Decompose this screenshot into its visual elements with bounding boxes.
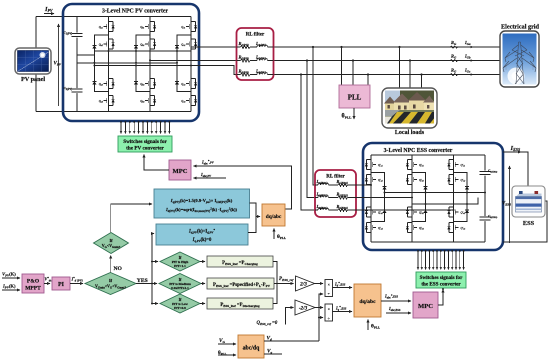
IGBT Qa4: [104, 96, 115, 106]
grid line impedance RG phase b: [450, 59, 458, 61]
ESS top rail: [371, 154, 485, 156]
svg-text:PV panel: PV panel: [21, 76, 45, 83]
ESS clamp diodes leg C: [465, 187, 469, 190]
wire PV dc link vertical: [35, 17, 37, 112]
svg-text:Vd: Vd: [267, 336, 272, 342]
svg-text:IGb: IGb: [464, 54, 471, 60]
ESS dc-link column: [484, 155, 486, 242]
equation box 1: [154, 189, 250, 218]
svg-text:RL filter: RL filter: [246, 33, 265, 38]
Switches signals ESS box: [416, 272, 466, 288]
IGBT Qb2: [145, 39, 156, 49]
capacitor C1(PV): [71, 33, 83, 38]
ESS neutral upper: [385, 192, 486, 194]
svg-text:PLL: PLL: [348, 94, 362, 102]
Switches signals PV box: [118, 136, 172, 152]
svg-text:Q′c1: Q′c1: [461, 164, 466, 168]
svg-text:C1(PV): C1(PV): [64, 31, 73, 36]
svg-text:Qc4: Qc4: [181, 100, 185, 104]
svg-text:I*d (PV): I*d (PV): [71, 276, 83, 283]
wire IabcPV measured to MPC: [194, 177, 227, 179]
dq/abc PV box: [262, 204, 285, 226]
input VPV(K): [2, 277, 20, 279]
result box charging: [207, 256, 273, 267]
svg-text:Qb1: Qb1: [140, 26, 144, 30]
inductor L2(PV): [257, 59, 267, 61]
Local loads image: [382, 88, 437, 128]
svg-text:Q′b3: Q′b3: [419, 211, 424, 215]
svg-text:PI: PI: [58, 282, 65, 288]
P&O MPPT box: [22, 274, 44, 293]
svg-text:×: ×: [328, 306, 330, 311]
IGBT Qpc1: [447, 160, 458, 170]
wire ESS tap phase A: [313, 47, 316, 185]
wire loads tap C: [421, 75, 423, 89]
NO wire: [110, 256, 112, 273]
svg-text:IPV(K): IPV(K): [2, 284, 16, 290]
svg-text:Q′c2: Q′c2: [461, 179, 466, 183]
svg-text:θPLL: θPLL: [371, 324, 380, 330]
svg-text:MPC: MPC: [418, 303, 433, 310]
IGBT Qpb2: [406, 175, 417, 185]
wire PLL tap B: [352, 61, 354, 86]
wire PESSref to 2/3: [277, 283, 294, 285]
theta PLL output: [353, 108, 355, 119]
svg-text:FfT>1.1: FfT>1.1: [174, 264, 186, 268]
upper diamond If VG below VGmin: [94, 233, 129, 254]
PI box: [52, 277, 70, 290]
svg-text:IGc: IGc: [464, 68, 471, 74]
svg-text:C1(ESS): C1(ESS): [488, 169, 497, 174]
wire PLL tap C: [367, 75, 369, 86]
ESS phase line B: [356, 197, 412, 199]
result box discharging: [207, 298, 273, 309]
battery return wire: [503, 201, 547, 242]
capacitor C2(PV): [71, 88, 83, 93]
svg-text:Local loads: Local loads: [395, 130, 425, 136]
IGBT Qpa4: [365, 223, 376, 233]
ESS gate bundle dots: [417, 250, 464, 252]
svg-text:2/3: 2/3: [299, 282, 307, 288]
IGBT Qpa2: [365, 175, 376, 185]
resistor R2(PV): [237, 60, 258, 62]
wire Iabc*PV from dq/abc to MPC: [194, 166, 292, 209]
svg-text:Switches signals for: Switches signals for: [420, 275, 463, 281]
svg-text:ESS: ESS: [523, 220, 535, 227]
svg-text:Qb2: Qb2: [140, 43, 144, 47]
svg-text:QESS_ref =0: QESS_ref =0: [257, 321, 278, 326]
main diamond If VGmin<VG<VGmax: [85, 273, 136, 295]
svg-text:MPPT: MPPT: [25, 286, 41, 292]
ESS leg C line: [453, 155, 455, 242]
Vd feed vertical: [319, 294, 323, 341]
IGBT Qb4: [145, 96, 156, 106]
svg-text:VPV: VPV: [54, 62, 62, 67]
wire PV positive rail: [36, 16, 77, 18]
svg-text:θPLL: θPLL: [218, 350, 227, 356]
FfT diamond High: [160, 252, 200, 271]
svg-text:RG: RG: [451, 68, 457, 74]
svg-text:RG: RG: [451, 54, 457, 60]
inductor L3(ESS): [315, 209, 318, 211]
wire loads tap A: [399, 47, 401, 88]
MPC PV box: [169, 160, 191, 180]
ESS clamp diodes leg B: [423, 187, 427, 190]
PV gate bundle dots: [120, 121, 170, 123]
ESS phase line C: [356, 209, 454, 211]
ESS neutral lower: [412, 198, 478, 205]
wire 2/3 to divider: [315, 283, 324, 285]
wire loads tap B: [409, 61, 411, 89]
inductor L1(ESS): [315, 184, 318, 186]
grid line impedance RG phase a: [450, 46, 458, 48]
svg-text:Qc1: Qc1: [181, 26, 185, 30]
ESS bottom rail: [371, 241, 485, 243]
svg-text:Qc2: Qc2: [181, 43, 185, 47]
resistor R3(ESS): [328, 209, 363, 211]
wires equation boxes to dq/abc PV: [248, 203, 256, 233]
branch vertical to eq2 and FfT diamonds: [152, 234, 154, 304]
dc-link column PV: [76, 17, 78, 112]
capacitor C2(ESS): [479, 216, 491, 221]
svg-text:VPV(K): VPV(K): [2, 272, 16, 278]
wire phase C bus: [269, 74, 501, 76]
leg B line: [149, 17, 151, 112]
inductor L1(PV): [257, 45, 267, 47]
svg-text:dq/abc: dq/abc: [359, 299, 376, 305]
ESS battery image: [512, 186, 545, 217]
IGBT Qc4: [186, 96, 197, 106]
svg-text:PESS_Ref =Pspecified+PL-PPV: PESS_Ref =Pspecified+PL-PPV: [213, 283, 271, 288]
wire Iabc*ESS dq/abc to MPC: [381, 300, 411, 302]
svg-text:-2/3: -2/3: [299, 306, 308, 312]
wire P&O to PI with Vdc*: [44, 283, 50, 285]
wire High diamond to box: [200, 261, 205, 263]
IGBT Qpb4: [406, 223, 417, 233]
FfT diamond Medium: [159, 274, 201, 294]
wire Iq*ESS into dq/abc: [333, 311, 353, 313]
resistor R3(PV): [237, 74, 258, 76]
svg-text:Iabc*,ESS: Iabc*,ESS: [384, 293, 398, 299]
svg-text:3-Level NPC ESS converter: 3-Level NPC ESS converter: [384, 148, 453, 154]
svg-text:IESS: IESS: [510, 145, 521, 152]
input thetaPLL: [218, 354, 236, 356]
svg-text:Iabc,PV: Iabc,PV: [200, 172, 212, 178]
IGBT Qc3: [186, 79, 197, 89]
svg-text:Iabc,ESS: Iabc,ESS: [388, 306, 401, 312]
svg-text:Qa3: Qa3: [99, 83, 103, 87]
svg-text:Q′c4: Q′c4: [461, 227, 466, 231]
phase C line PV: [94, 66, 236, 75]
IGBT Qb1: [145, 22, 156, 32]
PV gate signal bundle: [121, 121, 169, 134]
gain 2/3 triangle: [296, 276, 315, 291]
IGBT Qb3: [145, 79, 156, 89]
MPC ESS box: [413, 292, 438, 318]
input VG: [218, 343, 236, 345]
svg-text:Iq,PV(k)=0: Iq,PV(k)=0: [192, 238, 212, 243]
svg-text:Q′b4: Q′b4: [419, 227, 424, 231]
svg-text:RG: RG: [451, 40, 457, 46]
svg-text:PESS_ref: PESS_ref: [279, 277, 294, 282]
svg-text:Qa1: Qa1: [99, 26, 103, 30]
ESS clamp branch leg B: [412, 173, 426, 222]
PV bottom rail: [77, 111, 191, 113]
svg-text:Q′a4: Q′a4: [378, 227, 383, 231]
theta PLL into dq/abc ESS: [367, 320, 369, 331]
3-Level NPC ESS converter box: [363, 143, 503, 250]
IGBT Qpa1: [365, 160, 376, 170]
divider block d-axis: [325, 280, 333, 297]
wire MPC PV to switches box: [144, 155, 169, 171]
svg-text:θPLL: θPLL: [342, 114, 353, 120]
grid current IGb arrow: [464, 60, 473, 62]
svg-text:θPLL: θPLL: [277, 234, 286, 240]
IGBT Qpc4: [447, 223, 458, 233]
wire Low diamond to box: [200, 303, 205, 305]
wire IabcESS measured to MPC: [386, 312, 411, 314]
ESS clamp branch leg C: [454, 173, 468, 222]
equation box 2: [156, 224, 248, 245]
svg-text:0.9≤FfT≤1.1: 0.9≤FfT≤1.1: [171, 286, 189, 290]
wire Medium diamond to box: [201, 283, 205, 285]
IGBT Qa1: [104, 22, 115, 32]
svg-text:IPV: IPV: [44, 6, 53, 13]
resistor R1(PV): [237, 46, 258, 48]
svg-text:VG: VG: [219, 338, 225, 344]
junction dots ESS mid: [370, 184, 486, 211]
wire phase A bus: [269, 46, 501, 48]
output Vd: [264, 340, 319, 342]
svg-text:IGa: IGa: [464, 40, 471, 46]
IGBT Qa2: [104, 39, 115, 49]
ESS leg B line: [411, 155, 413, 242]
wire PV negative rail: [36, 111, 77, 113]
clamp diodes leg C: [175, 46, 179, 49]
inductor L2(ESS): [315, 197, 318, 199]
svg-text:PESS_Ref =PDischarging: PESS_Ref =PDischarging: [220, 303, 260, 308]
IGBT Qpb1: [406, 160, 417, 170]
wire PI to diamond with Id*(PV): [70, 283, 83, 285]
dq/abc ESS box: [354, 284, 381, 317]
phase B line PV: [150, 59, 237, 61]
svg-text:C2(PV): C2(PV): [64, 86, 73, 91]
PLL block: [339, 85, 370, 108]
IGBT Qpc2: [447, 175, 458, 185]
resistor R1(ESS): [328, 184, 363, 186]
svg-text:Qa2: Qa2: [99, 43, 103, 47]
svg-text:Q′a3: Q′a3: [378, 211, 383, 215]
label V_PV with arrow: [58, 24, 60, 106]
IGBT Qpc3: [447, 207, 458, 217]
svg-text:V*dc: V*dc: [45, 276, 53, 283]
PV panel: [15, 48, 51, 74]
grid line impedance RG phase c: [450, 73, 458, 75]
IGBT Qc1: [186, 22, 197, 32]
RL filter PV box: [237, 28, 274, 80]
wire PLL tap A: [341, 47, 343, 85]
ESS gate signal bundle: [418, 250, 464, 270]
svg-text:Q′a2: Q′a2: [378, 179, 383, 183]
grid current IGa arrow: [464, 46, 473, 48]
clamp branch leg C: [177, 35, 191, 92]
ESS phase line A: [356, 184, 371, 186]
PV top rail: [77, 16, 191, 18]
wire Id*ESS into dq/abc: [333, 287, 353, 289]
theta PLL into dq/abc PV: [273, 229, 275, 240]
svg-text:Electrical grid: Electrical grid: [501, 24, 540, 31]
wire ESS tap phase C: [301, 75, 316, 211]
svg-text:Q′b1: Q′b1: [419, 164, 424, 168]
wire ESS tap phase B: [307, 61, 316, 198]
VESS arrow: [509, 166, 511, 243]
gain -2/3 triangle: [295, 300, 315, 315]
IGBT Qpb3: [406, 207, 417, 217]
YES wire: [136, 283, 152, 285]
svg-text:FfT<0.9: FfT<0.9: [174, 306, 186, 310]
svg-text:Id*,ESS: Id*,ESS: [334, 281, 346, 287]
svg-text:Iq*,ESS: Iq*,ESS: [335, 305, 347, 311]
ESS leg A line: [370, 155, 372, 242]
FfT diamond Low: [160, 294, 200, 313]
RL filter ESS box: [315, 170, 356, 217]
phase A line PV: [94, 47, 236, 51]
svg-text:Qb3: Qb3: [140, 83, 144, 87]
clamp branch leg A: [94, 35, 108, 92]
junction dots PV mid: [93, 50, 192, 67]
output Vq: [264, 353, 282, 355]
abc/dq box: [238, 335, 264, 358]
svg-text:abc/dq: abc/dq: [243, 346, 261, 352]
wire -2/3 to divider: [315, 307, 323, 309]
svg-text:Iabc*,PV: Iabc*,PV: [201, 159, 215, 165]
svg-text:the PV converter: the PV converter: [126, 146, 164, 152]
clamp branch leg B: [136, 35, 150, 92]
inductor L3(PV): [257, 73, 267, 75]
IGBT Qa3: [104, 79, 115, 89]
svg-text:Switches signals for: Switches signals for: [123, 139, 167, 145]
svg-text:MPC: MPC: [172, 168, 187, 175]
neutral rail PV: [77, 55, 177, 63]
svg-text:Qb4: Qb4: [140, 100, 144, 104]
svg-text:P&O: P&O: [27, 278, 40, 284]
grid current IGc arrow: [464, 74, 473, 76]
svg-text:YES: YES: [137, 278, 148, 284]
ESS clamp diodes leg A: [382, 187, 386, 190]
input IPV(K): [2, 289, 20, 291]
capacitor C1(ESS): [479, 171, 491, 176]
svg-text:NO: NO: [114, 266, 123, 272]
clamp diodes leg B: [134, 46, 138, 49]
IGBT Qpa3: [365, 207, 376, 217]
leg C line: [190, 17, 192, 112]
svg-text:the ESS converter: the ESS converter: [421, 282, 461, 288]
ESS clamp branch leg A: [371, 173, 385, 222]
result box specified: [207, 278, 274, 289]
IGBT Qc2: [186, 39, 197, 49]
clamp diodes leg A: [92, 46, 96, 49]
svg-text:VESS: VESS: [502, 202, 511, 207]
wire upper diamond to eq box 1: [111, 204, 152, 233]
svg-text:dq/abc: dq/abc: [266, 214, 282, 220]
svg-text:Vq: Vq: [267, 349, 272, 355]
wire phase B bus: [269, 60, 501, 62]
svg-text:PESS_Ref =PCharging: PESS_Ref =PCharging: [222, 261, 258, 266]
svg-text:Qa4: Qa4: [99, 100, 103, 104]
junction dots on buses: [312, 46, 314, 48]
svg-text:C2(ESS): C2(ESS): [488, 214, 497, 219]
divider block q-axis: [325, 304, 333, 321]
svg-text:Q′a1: Q′a1: [378, 164, 383, 168]
result bus to PESSref: [273, 262, 277, 304]
wire MPC ESS to switches box: [438, 290, 443, 306]
leg A line: [108, 17, 110, 112]
svg-text:Qc3: Qc3: [181, 83, 185, 87]
svg-text:3-Level NPC PV converter: 3-Level NPC PV converter: [102, 9, 168, 15]
svg-text:×: ×: [328, 282, 330, 287]
3-Level NPC PV converter box: [63, 4, 199, 121]
svg-text:Q′b2: Q′b2: [419, 179, 424, 183]
resistor R2(ESS): [328, 197, 363, 199]
svg-text:Q′c3: Q′c3: [461, 211, 466, 215]
